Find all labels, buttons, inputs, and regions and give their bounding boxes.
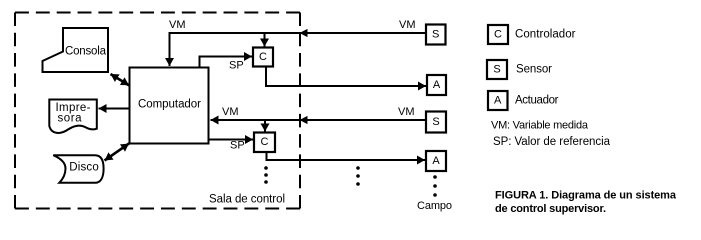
svg-text:Controlador: Controlador [515,29,576,41]
svg-text:Consola: Consola [65,46,107,58]
svg-text:C: C [259,51,267,63]
svg-text:S: S [432,116,439,128]
svg-text:Sala de control: Sala de control [209,194,285,206]
svg-text:VM: Variable medida: VM: Variable medida [491,119,589,131]
svg-text:A: A [432,155,440,167]
svg-text:Campo: Campo [417,200,452,212]
svg-text:SP: Valor de referencia: SP: Valor de referencia [493,136,611,148]
svg-text:Actuador: Actuador [515,95,559,107]
svg-text:SP: SP [230,140,245,152]
svg-text:VM: VM [398,106,415,118]
svg-text:C: C [261,136,269,148]
svg-text:sora: sora [58,113,83,125]
svg-text:VM: VM [169,19,186,31]
svg-text:A: A [433,79,441,91]
svg-text:Disco: Disco [69,162,99,174]
svg-text:de control supervisor.: de control supervisor. [495,203,606,215]
svg-text:C: C [494,29,502,41]
svg-text:S: S [432,29,439,41]
svg-text:Sensor: Sensor [516,64,552,76]
svg-text:SP: SP [229,60,244,72]
svg-text:S: S [493,64,500,76]
svg-text:A: A [494,95,502,107]
svg-text:VM: VM [399,19,416,31]
svg-text:FIGURA 1. Diagrama de un siste: FIGURA 1. Diagrama de un sistema [495,190,677,202]
svg-text:VM: VM [222,106,239,118]
svg-text:Computador: Computador [138,99,201,111]
